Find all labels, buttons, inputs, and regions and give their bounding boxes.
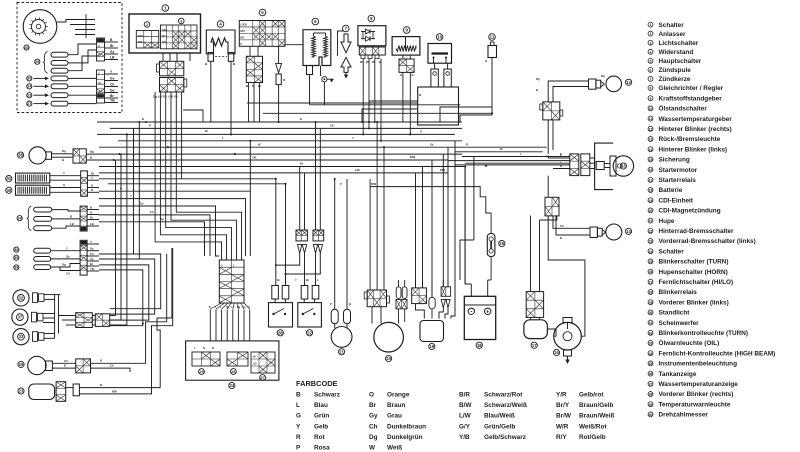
svg-text:B/R: B/R (459, 392, 470, 399)
svg-text:Braun/Gelb: Braun/Gelb (579, 402, 614, 409)
svg-text:10: 10 (649, 107, 653, 111)
svg-text:Br/W: Br/W (556, 413, 572, 420)
wires sender down (402, 72, 404, 122)
svg-text:Y/R: Y/R (252, 156, 256, 160)
svg-text:B: B (209, 306, 211, 309)
svg-text:G: G (420, 130, 422, 134)
svg-text:ON: ON (138, 40, 142, 44)
svg-text:Gelb: Gelb (314, 423, 328, 430)
front right blinker 38 (18, 152, 24, 158)
svg-text:15: 15 (499, 241, 504, 246)
headlight 31 filament (6, 176, 12, 182)
battery wires (470, 284, 472, 296)
connector pair mid right (570, 154, 579, 176)
svg-text:Gelb/rot: Gelb/rot (579, 392, 604, 399)
svg-text:B: B (142, 117, 144, 121)
wires connector down (547, 120, 549, 154)
svg-text:B: B (419, 93, 421, 97)
svg-text:L: L (296, 402, 300, 409)
svg-text:Gelb/Schwarz: Gelb/Schwarz (484, 434, 526, 441)
svg-text:OFF: OFF (240, 30, 245, 33)
svg-text:20: 20 (649, 209, 653, 213)
oil tank box (418, 87, 459, 125)
connector block under box 1 (160, 61, 184, 76)
connector block lamps B (95, 314, 109, 327)
spark lead (320, 66, 322, 77)
junction dots (138, 121, 140, 123)
svg-text:Y: Y (130, 194, 132, 198)
svg-text:R: R (296, 434, 301, 441)
indicator lamp 37 temp gauge (12, 309, 28, 325)
wire sensor 11 down (491, 58, 493, 116)
handlebar switch assembly dashed enclosure (17, 3, 122, 113)
bus wire 5 (99, 146, 448, 148)
svg-text:O: O (369, 392, 374, 399)
water temperature sender 11 (489, 34, 496, 41)
sensor 11 elbow (440, 107, 492, 122)
svg-text:37: 37 (18, 315, 23, 320)
svg-text:40: 40 (649, 413, 653, 417)
svg-text:P: P (330, 302, 332, 306)
svg-text:G/Y: G/Y (459, 423, 471, 430)
svg-text:Sicherung: Sicherung (659, 157, 690, 164)
svg-text:25: 25 (649, 260, 653, 264)
svg-text:ON: ON (162, 41, 166, 44)
CDI magneto connector (367, 290, 386, 307)
wire from rotor to comb (57, 20, 70, 23)
ignition coil 6 (Zuendspule) (312, 18, 319, 25)
bus wire 2 (110, 127, 462, 129)
svg-text:Y/R: Y/R (556, 392, 567, 399)
svg-text:24: 24 (229, 383, 234, 388)
lamp switch pills 36 35 39 (14, 247, 19, 252)
horn 21 terminals (331, 309, 338, 324)
svg-text:Br: Br (205, 129, 208, 133)
svg-text:Zündkerze: Zündkerze (659, 76, 691, 83)
combination switch unit 1 (129, 14, 201, 53)
starter motor brush (564, 350, 572, 356)
svg-text:Ölstandschalter: Ölstandschalter (659, 104, 708, 113)
svg-text:Ch: Ch (110, 83, 114, 87)
svg-text:W: W (360, 60, 363, 64)
svg-text:R: R (149, 124, 151, 128)
svg-text:Gy: Gy (110, 50, 115, 54)
connector under 9 (399, 59, 414, 72)
svg-text:Vorderrad-Bremsschalter (links: Vorderrad-Bremsschalter (links) (659, 238, 756, 245)
wires relay to motor (530, 317, 532, 319)
svg-text:Br: Br (98, 54, 101, 58)
svg-text:3: 3 (650, 41, 652, 45)
svg-text:YB: YB (110, 99, 115, 103)
svg-text:25: 25 (35, 60, 39, 64)
svg-text:Y: Y (221, 264, 223, 268)
svg-text:23: 23 (649, 240, 653, 244)
relay wires up (530, 216, 532, 292)
svg-text:27: 27 (27, 102, 31, 106)
wire to relay from mesh (448, 172, 531, 174)
svg-text:20: 20 (386, 356, 391, 361)
svg-text:Instrumentenbeleuchtung: Instrumentenbeleuchtung (659, 361, 738, 368)
sub switch grid 3 (179, 18, 185, 24)
svg-text:OFF: OFF (162, 29, 167, 32)
svg-text:Y: Y (63, 171, 65, 175)
svg-text:26: 26 (27, 77, 31, 81)
svg-text:Gy: Gy (110, 77, 115, 81)
bus wire 11 to rear switch (108, 184, 286, 286)
battery 18 (464, 296, 495, 339)
svg-text:Hinterer Blinker (rechts): Hinterer Blinker (rechts) (659, 126, 732, 133)
svg-text:Anlasser: Anlasser (659, 31, 687, 38)
wires connector 5 down (248, 83, 250, 123)
svg-text:Dg: Dg (601, 74, 605, 78)
sub switch grid 2 (144, 22, 150, 28)
connector 38 (73, 149, 86, 163)
svg-text:B/W: B/W (410, 155, 416, 159)
starter relay 17 connector (526, 292, 543, 318)
drops to lamp sockets (299, 167, 301, 231)
svg-text:Blinkerrelais: Blinkerrelais (659, 289, 698, 296)
svg-text:N: N (203, 346, 205, 350)
svg-text:Gy: Gy (140, 201, 144, 205)
oil switch terminals (431, 69, 438, 87)
wires magneto down (371, 307, 373, 324)
svg-text:30: 30 (649, 311, 653, 315)
svg-text:B: B (536, 88, 538, 92)
svg-text:RW: RW (112, 389, 117, 393)
fuel level sender 9 (403, 27, 410, 34)
svg-text:5: 5 (650, 59, 652, 63)
svg-text:HI: HI (253, 356, 256, 359)
wires box1 to connector (162, 53, 164, 61)
svg-text:CDI-Einheit: CDI-Einheit (659, 197, 694, 204)
svg-text:LB: LB (70, 222, 74, 226)
svg-text:Y: Y (66, 246, 68, 250)
svg-text:7: 7 (650, 77, 652, 81)
flywheel magneto rotor 40 (23, 10, 57, 44)
indicator lamp 33 OIL (13, 329, 29, 345)
svg-text:Vorderer Blinker (links): Vorderer Blinker (links) (659, 299, 729, 306)
svg-text:4: 4 (650, 50, 652, 54)
svg-text:W: W (372, 60, 375, 64)
svg-text:W: W (369, 445, 376, 452)
svg-text:Rot: Rot (314, 434, 326, 441)
svg-text:16: 16 (649, 168, 653, 172)
svg-text:Hinterrad-Bremsschalter: Hinterrad-Bremsschalter (659, 228, 734, 235)
svg-text:Batterie: Batterie (659, 187, 683, 194)
switch 22 box (298, 303, 322, 327)
svg-text:35: 35 (649, 362, 653, 366)
svg-text:R: R (212, 346, 214, 350)
svg-text:Gy: Gy (90, 257, 94, 261)
svg-text:Br: Br (306, 278, 309, 282)
switch pill 26 (27, 76, 32, 81)
wires dimmer pills to strip (52, 210, 80, 211)
svg-text:40: 40 (25, 46, 29, 50)
svg-text:36: 36 (14, 248, 18, 252)
svg-text:Br: Br (277, 278, 280, 282)
tail/brake light 13 (595, 143, 614, 190)
wires 29 onward (91, 362, 138, 364)
connector 29 (76, 359, 91, 373)
svg-text:16: 16 (554, 350, 559, 355)
svg-text:R/W: R/W (371, 182, 377, 186)
svg-text:23: 23 (19, 389, 24, 394)
svg-text:22: 22 (307, 330, 312, 335)
svg-text:Dg: Dg (160, 217, 164, 221)
svg-text:26: 26 (231, 370, 235, 374)
svg-text:B/W: B/W (459, 402, 472, 409)
connector above box24 (219, 260, 244, 303)
svg-text:PO: PO (162, 35, 166, 38)
switch grid 27 HI/LO (251, 352, 275, 373)
svg-text:Rück-/Bremsleuchte: Rück-/Bremsleuchte (659, 136, 721, 143)
svg-text:24: 24 (27, 85, 31, 89)
svg-text:B: B (560, 236, 562, 240)
svg-text:Dg: Dg (369, 434, 378, 441)
wires pills to connector strips (68, 44, 97, 55)
svg-text:ON: ON (240, 37, 244, 40)
svg-text:31: 31 (649, 321, 653, 325)
svg-text:B: B (98, 45, 100, 49)
svg-text:Tankanzeige: Tankanzeige (659, 371, 697, 378)
svg-text:21: 21 (339, 349, 344, 354)
rectifier/regulator 8 (368, 15, 375, 22)
svg-text:Schwarz/Weiß: Schwarz/Weiß (484, 402, 527, 409)
front brake switch 23 body (18, 388, 24, 394)
stub wires lower with labels (105, 73, 118, 75)
svg-text:Ch: Ch (64, 359, 68, 363)
svg-text:Hinterer Blinker (links): Hinterer Blinker (links) (659, 146, 728, 153)
resistor legs (208, 53, 214, 62)
switch grid 25 TURN (192, 352, 220, 366)
svg-text:B: B (100, 359, 102, 363)
nested elbow wires into connector 24 (155, 99, 221, 260)
svg-text:B: B (90, 156, 92, 160)
svg-text:Kraftstoffstandgeber: Kraftstoffstandgeber (659, 95, 723, 102)
svg-text:Wassertemperaturanzeige: Wassertemperaturanzeige (659, 381, 739, 388)
svg-text:27: 27 (649, 280, 653, 284)
svg-text:Rot/Gelb: Rot/Gelb (579, 434, 606, 441)
svg-text:Ölwarnleuchte (OIL): Ölwarnleuchte (OIL) (659, 338, 720, 347)
rear brake switch 28 box (269, 303, 293, 327)
svg-text:29: 29 (649, 301, 653, 305)
svg-text:39: 39 (649, 403, 653, 407)
svg-text:38: 38 (649, 393, 653, 397)
svg-text:G: G (63, 183, 65, 187)
upper horizontal links (247, 102, 418, 104)
svg-text:Schwarz: Schwarz (314, 392, 340, 399)
svg-text:Fernlichtschalter (HI/LO): Fernlichtschalter (HI/LO) (659, 279, 734, 286)
verticals bottom right region (464, 167, 466, 285)
CDI unit 19 body (420, 321, 444, 342)
wire motor to relay (547, 329, 556, 336)
svg-text:LO: LO (253, 363, 257, 366)
svg-text:Y: Y (91, 176, 93, 180)
pickup comb connector (70, 19, 95, 21)
switch pill 23 (27, 93, 32, 98)
svg-text:6: 6 (650, 68, 652, 72)
svg-text:Grau: Grau (387, 413, 402, 420)
svg-text:Blau: Blau (314, 402, 328, 409)
svg-text:LB: LB (330, 124, 334, 128)
svg-text:Standlicht: Standlicht (659, 310, 691, 317)
left connector strip upper (97, 38, 105, 61)
svg-text:Schalter: Schalter (659, 248, 685, 255)
svg-text:-: - (470, 309, 472, 316)
svg-text:2: 2 (146, 23, 148, 27)
svg-text:Ch: Ch (369, 423, 378, 430)
indicator lamp 32 TURN (13, 290, 29, 306)
svg-text:25: 25 (199, 370, 203, 374)
svg-text:Scheinwerfer: Scheinwerfer (659, 320, 700, 327)
main fuse lead with bullet connector (278, 47, 280, 64)
svg-text:28: 28 (278, 330, 283, 335)
svg-text:Dunkelbraun: Dunkelbraun (387, 423, 426, 430)
svg-text:L/W: L/W (355, 168, 360, 172)
left risers into mesh (133, 128, 135, 254)
rear right blinker 12 (606, 76, 622, 92)
svg-text:Br: Br (300, 162, 303, 166)
front left blinker 29 (18, 361, 24, 367)
switch pill 27 (27, 101, 32, 106)
svg-text:B: B (64, 364, 66, 368)
svg-text:13: 13 (649, 138, 653, 142)
bus 10 drop to switch 28 (275, 179, 277, 265)
svg-text:38: 38 (18, 153, 23, 158)
starter relay 17 body (524, 320, 548, 339)
switch pill 24 (27, 84, 32, 89)
svg-text:W: W (366, 60, 369, 64)
svg-text:Hupe: Hupe (659, 218, 675, 225)
wires from mesh to connector 13 (548, 157, 570, 159)
svg-text:Temperaturwarnleuchte: Temperaturwarnleuchte (659, 401, 731, 408)
svg-text:39: 39 (14, 266, 18, 270)
svg-text:24: 24 (649, 250, 653, 254)
fuse 15 (Sicherung) (487, 234, 495, 257)
svg-text:Gy: Gy (98, 81, 102, 85)
switch pills group 25 (TURN switch) (43, 52, 48, 74)
svg-text:14: 14 (626, 229, 631, 234)
svg-text:B: B (62, 158, 64, 162)
rear brake switch 28 terminals (272, 286, 279, 300)
svg-text:Y: Y (296, 423, 301, 430)
svg-text:Lichtschalter: Lichtschalter (659, 40, 699, 47)
diode symbols (361, 31, 366, 33)
pickup connector pair (396, 287, 401, 299)
svg-text:R: R (379, 60, 381, 64)
svg-text:21: 21 (649, 219, 653, 223)
wires sockets down (276, 253, 300, 285)
svg-text:B: B (412, 73, 414, 77)
wires magneto up (369, 179, 371, 290)
dimmer switch pills group (27, 206, 32, 231)
svg-text:Braun/Weiß: Braun/Weiß (579, 413, 614, 420)
left harness braid (99, 254, 161, 309)
svg-text:FARBCODE: FARBCODE (296, 379, 338, 388)
connector strip left mid (80, 206, 87, 231)
wires cdi connectors (415, 280, 417, 288)
svg-text:Y: Y (295, 278, 297, 282)
svg-text:Br/Y: Br/Y (556, 402, 570, 409)
svg-text:24: 24 (18, 216, 22, 220)
svg-text:Dg: Dg (90, 150, 94, 154)
wires connector down through mesh (181, 99, 183, 179)
svg-text:Y: Y (352, 136, 354, 140)
svg-text:Blinkerschalter (TURN): Blinkerschalter (TURN) (659, 259, 729, 266)
svg-text:12: 12 (626, 80, 631, 85)
svg-text:15: 15 (649, 158, 653, 162)
svg-text:Br: Br (369, 402, 377, 409)
svg-text:+: + (486, 309, 489, 315)
svg-text:Blau/Weiß: Blau/Weiß (484, 413, 515, 420)
svg-text:CDI-Magnetzündung: CDI-Magnetzündung (659, 208, 721, 215)
svg-text:Vorderer Blinker (rechts): Vorderer Blinker (rechts) (659, 391, 734, 398)
svg-text:LB: LB (90, 222, 94, 226)
wire from switch to coil (285, 44, 303, 46)
svg-text:Ch: Ch (226, 306, 230, 309)
svg-text:YB: YB (90, 267, 94, 271)
wires brake switch right (79, 387, 160, 389)
connector under 5 (246, 56, 262, 82)
svg-text:32: 32 (649, 331, 653, 335)
svg-text:1: 1 (650, 23, 652, 27)
svg-text:Y: Y (90, 240, 92, 244)
svg-text:Dg: Dg (62, 149, 66, 153)
rear left blinker 14 (606, 224, 622, 240)
svg-text:Hauptschalter: Hauptschalter (659, 58, 702, 65)
left lower horizontals (249, 141, 251, 191)
svg-text:Widerstand: Widerstand (659, 49, 694, 56)
CDI magneto 20 body (374, 322, 404, 352)
wires 38 to mesh (86, 153, 139, 155)
wires lamps onward (92, 315, 95, 317)
wires 5 to connector (249, 47, 251, 57)
braid risers down to front blinker and brake switch (138, 254, 167, 363)
svg-text:B: B (349, 302, 351, 306)
svg-text:18: 18 (477, 343, 482, 348)
svg-text:R/W: R/W (440, 168, 446, 172)
position light 30 filament (6, 187, 12, 193)
svg-text:B: B (300, 117, 302, 121)
bus wire 7 (125, 159, 448, 161)
svg-text:Gy: Gy (66, 255, 70, 259)
svg-text:19: 19 (429, 344, 434, 349)
svg-text:Ch: Ch (90, 252, 94, 256)
svg-text:G: G (400, 73, 402, 77)
connector under 8 (359, 47, 385, 55)
svg-text:35: 35 (14, 256, 18, 260)
svg-text:37: 37 (649, 382, 653, 386)
resistor 4 (Widerstand) (217, 21, 224, 28)
svg-text:R/Y: R/Y (556, 434, 567, 441)
svg-text:13: 13 (621, 164, 626, 169)
svg-text:Ch: Ch (66, 272, 70, 276)
svg-text:9: 9 (650, 97, 652, 101)
switch housing box 24 (186, 341, 279, 380)
bus wire 9 (99, 172, 448, 174)
svg-text:11: 11 (649, 117, 653, 121)
svg-text:Grün/Gelb: Grün/Gelb (484, 423, 515, 430)
svg-text:36: 36 (649, 372, 653, 376)
svg-text:23: 23 (27, 93, 31, 97)
stub wires upper with labels (105, 41, 118, 43)
bus wire 10 (99, 178, 276, 180)
svg-text:L/W: L/W (459, 413, 472, 420)
bus wire 6 (139, 153, 462, 155)
svg-text:Rosa: Rosa (314, 445, 330, 452)
connector upper right (543, 102, 560, 120)
svg-text:Wassertemperaturgeber: Wassertemperaturgeber (659, 116, 733, 123)
